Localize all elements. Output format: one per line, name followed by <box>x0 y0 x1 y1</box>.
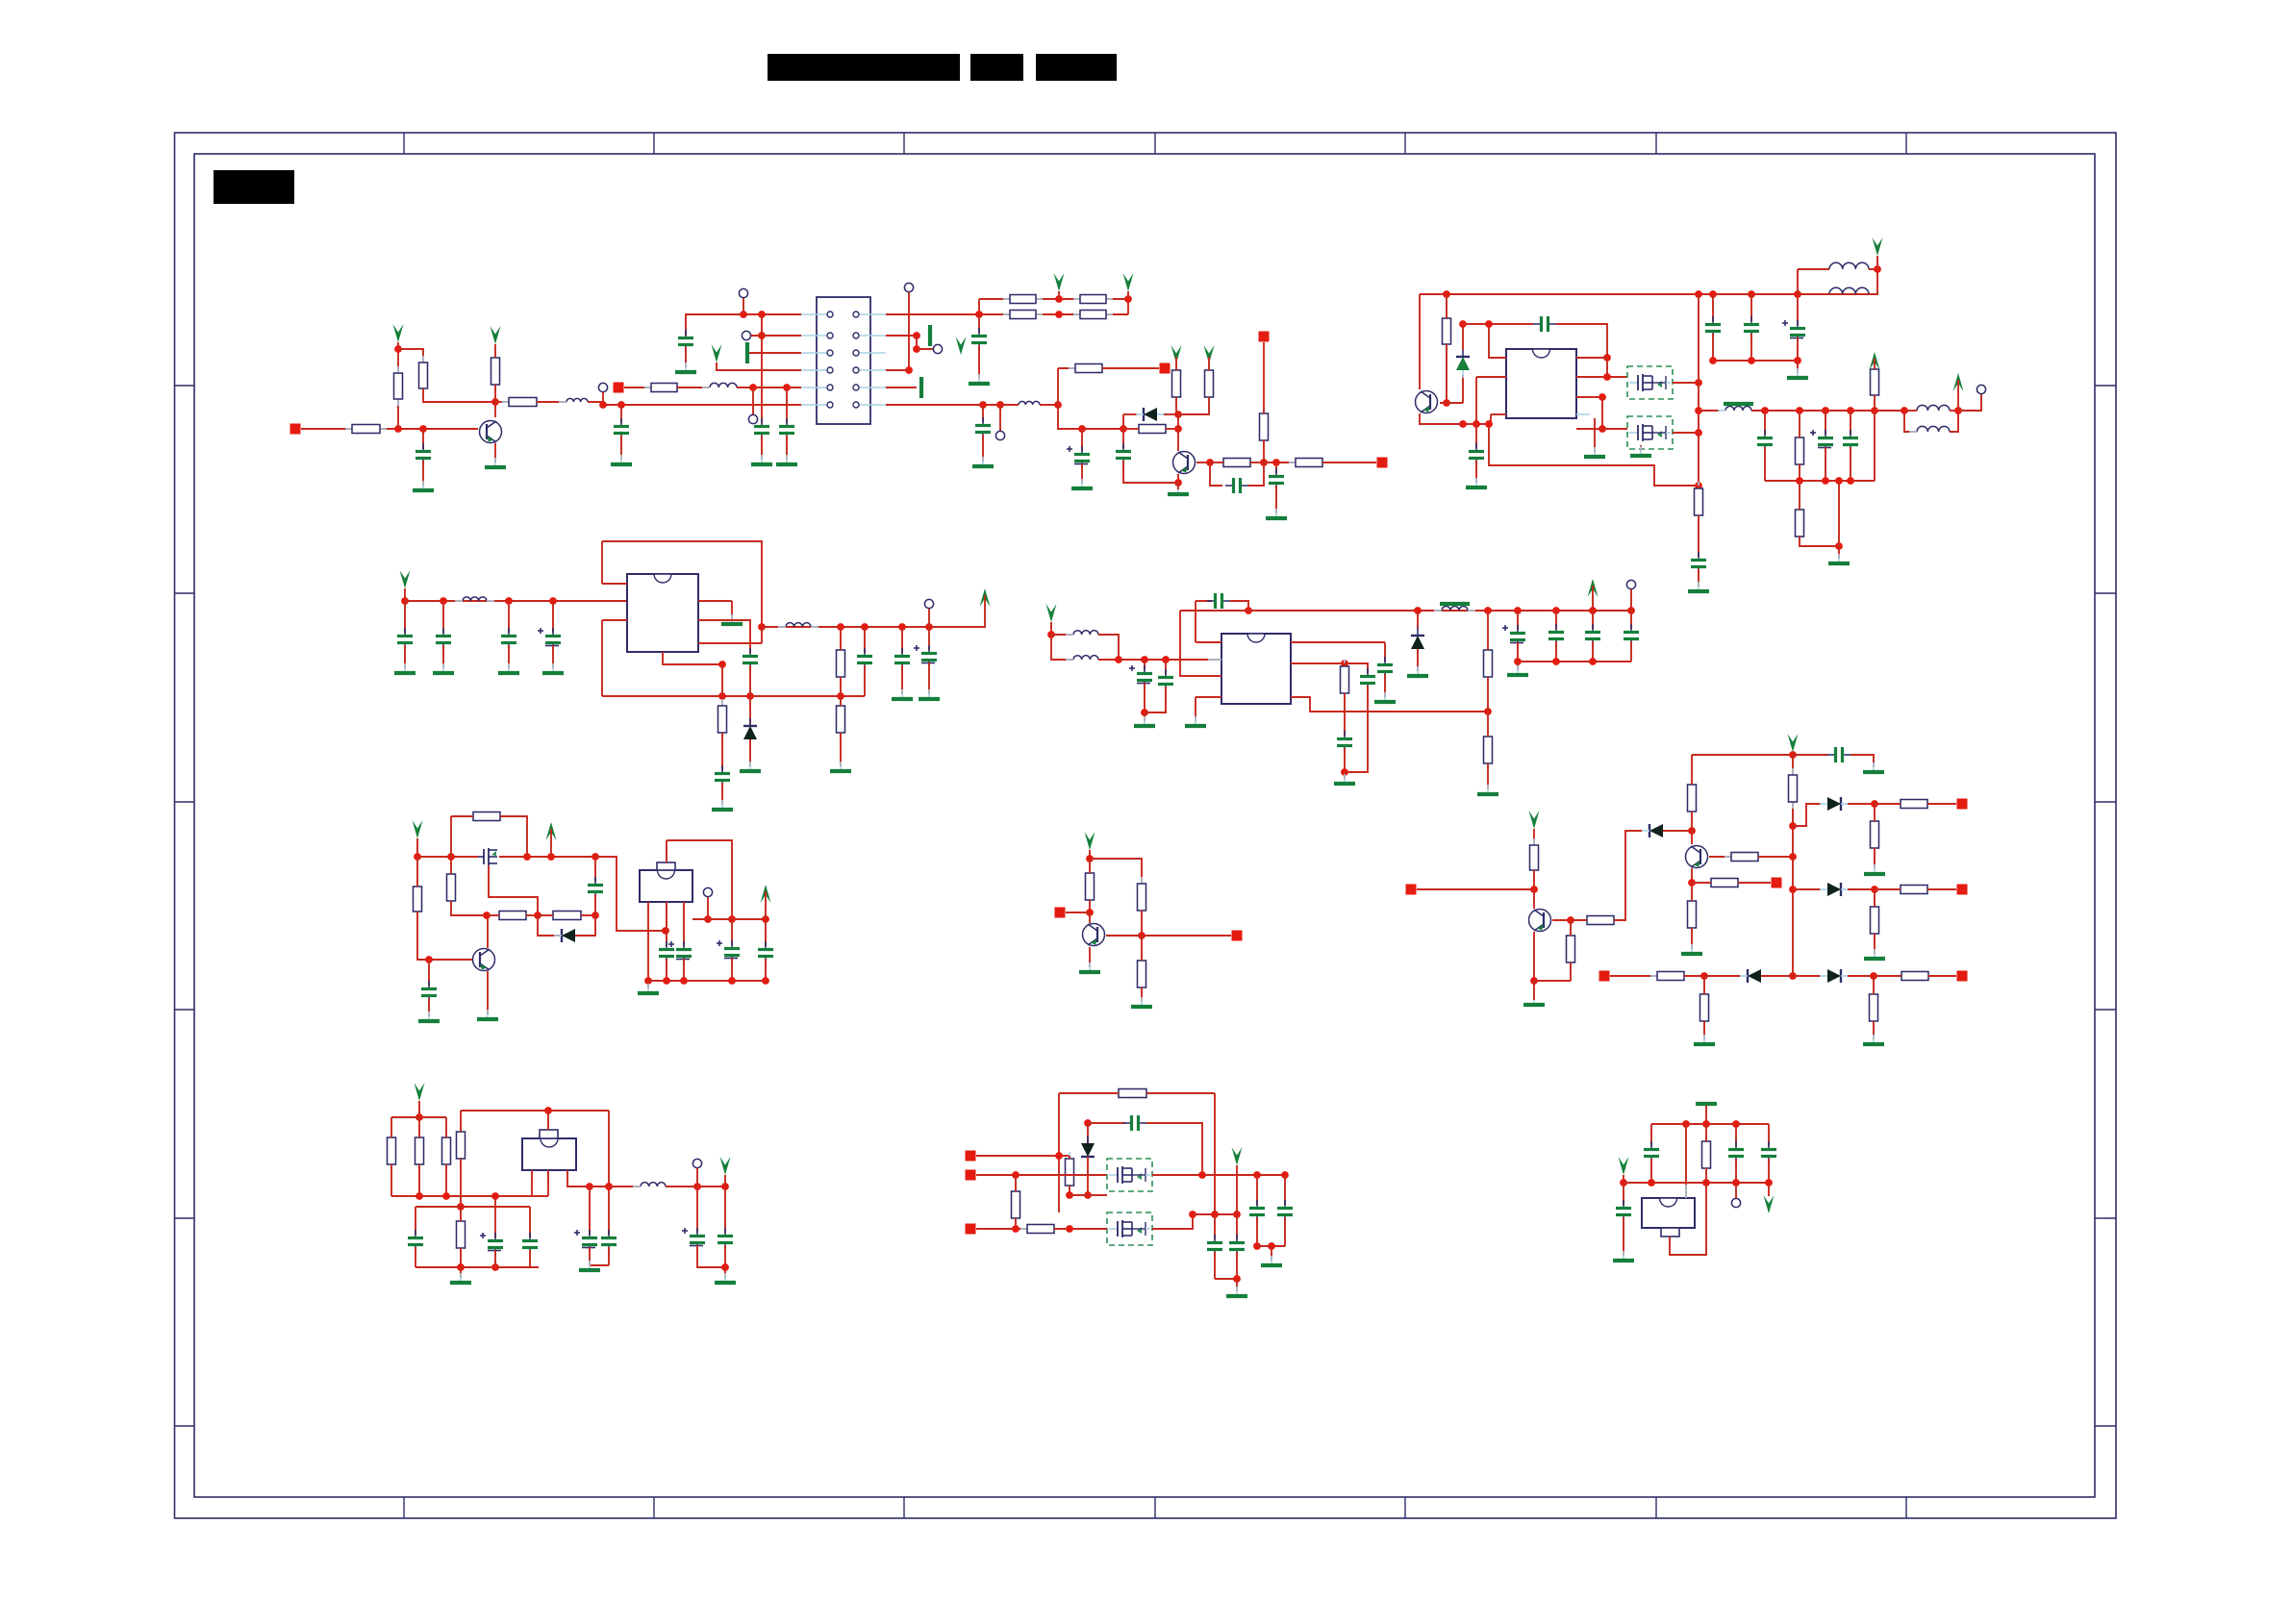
wire <box>1051 635 1073 660</box>
junction <box>1695 482 1702 489</box>
wire <box>1874 848 1876 869</box>
junction <box>1174 411 1182 418</box>
wire <box>404 588 406 601</box>
test point <box>1731 1198 1740 1207</box>
junction <box>1765 1179 1773 1187</box>
junction <box>1599 425 1606 433</box>
wire <box>901 627 903 653</box>
capacitor C33 <box>659 941 674 964</box>
wire <box>1764 447 1766 481</box>
junction <box>491 1263 499 1271</box>
capacitor <box>1624 624 1639 647</box>
junction <box>1847 407 1854 414</box>
junction <box>1688 827 1696 835</box>
ground <box>1131 997 1152 1007</box>
wire <box>460 1267 462 1278</box>
wire <box>1848 975 1874 977</box>
junction <box>1682 1120 1690 1128</box>
wire <box>1698 294 1699 433</box>
wire <box>1533 981 1535 1000</box>
wire <box>594 894 596 915</box>
wire top rail <box>391 1116 446 1118</box>
junction <box>394 345 402 353</box>
wire <box>1750 334 1752 361</box>
wire <box>1533 870 1535 889</box>
wire <box>1798 293 1829 295</box>
wire <box>1793 888 1821 890</box>
junction <box>1648 1179 1655 1187</box>
resistor R46 <box>1871 814 1879 855</box>
junction <box>1473 420 1480 428</box>
off-page connector P6 <box>1055 908 1066 918</box>
wire <box>494 1250 496 1267</box>
capacitor C17 <box>1843 430 1858 453</box>
resistor R3 <box>419 356 428 395</box>
wire <box>928 627 930 650</box>
junction <box>1789 886 1797 893</box>
resistor R45 <box>1894 800 1934 809</box>
wire <box>765 919 767 946</box>
junction <box>1589 658 1597 665</box>
junction <box>1272 459 1280 466</box>
wire <box>1175 397 1177 414</box>
wire <box>1691 883 1693 901</box>
wire <box>1123 413 1138 415</box>
MOSFET Q6 <box>478 848 497 865</box>
junction <box>1233 1211 1241 1218</box>
wire <box>404 601 406 633</box>
wire <box>415 1247 416 1267</box>
junction <box>1174 479 1182 487</box>
junction <box>1748 290 1755 298</box>
IC U4 tab <box>657 862 675 870</box>
wire <box>1712 294 1714 321</box>
wire <box>1570 962 1572 981</box>
wire <box>1738 882 1771 884</box>
wire main column <box>1792 755 1794 976</box>
wire <box>1462 375 1464 403</box>
junction <box>718 661 726 668</box>
wire <box>1950 410 1958 412</box>
wire <box>1606 358 1608 377</box>
wire <box>1761 975 1793 977</box>
junction <box>1530 977 1538 985</box>
junction <box>491 1192 499 1200</box>
capacitor C7 <box>1225 478 1248 493</box>
junction <box>1198 1171 1206 1179</box>
wire <box>1210 462 1222 486</box>
resistor R40 <box>1688 778 1697 818</box>
wire U2 pin <box>602 583 627 585</box>
wire feedback <box>1345 686 1368 772</box>
junction <box>599 401 607 409</box>
wire <box>1145 687 1166 712</box>
junction <box>440 597 447 605</box>
resistor R15 <box>1217 459 1257 467</box>
IC U4 <box>640 870 692 902</box>
junction <box>1603 373 1611 381</box>
wire <box>1257 1245 1285 1247</box>
junction <box>1732 1120 1740 1128</box>
resistor R38 <box>1567 929 1575 969</box>
test point <box>933 344 942 353</box>
ground <box>751 455 772 464</box>
ground <box>1134 716 1155 726</box>
IC U5 <box>522 1138 576 1170</box>
wire <box>1698 433 1699 486</box>
capacitor C29 <box>1360 668 1375 691</box>
wire to regulator <box>595 857 666 931</box>
junction <box>1835 477 1843 485</box>
wire <box>1322 462 1376 463</box>
junction <box>721 1183 729 1190</box>
junction <box>1789 853 1797 861</box>
capacitor C24 <box>1129 665 1152 688</box>
wire Q2 emitter <box>1177 474 1179 483</box>
wire connector row 5 out <box>886 387 917 388</box>
wire rail <box>499 856 595 858</box>
wire <box>901 665 903 694</box>
wire <box>1015 1175 1017 1191</box>
power flag <box>1588 579 1599 597</box>
wire <box>1275 462 1277 473</box>
wire <box>1275 486 1277 513</box>
wire <box>724 1267 726 1278</box>
ground <box>1863 762 1884 772</box>
wire <box>1650 1124 1652 1146</box>
off-page connector P8 <box>1406 885 1417 895</box>
wire <box>1059 1092 1119 1094</box>
ground <box>972 457 994 466</box>
resistor R47 <box>1894 886 1934 894</box>
wire <box>666 840 667 862</box>
junction <box>617 401 625 409</box>
junction <box>1794 290 1801 298</box>
wire <box>1175 357 1177 370</box>
junction <box>1603 354 1611 362</box>
wire Q8 collector <box>1106 935 1142 937</box>
wire <box>526 914 538 916</box>
resistor <box>415 1131 424 1171</box>
wire <box>442 645 444 668</box>
capacitor C55 <box>601 1230 617 1253</box>
junction <box>1012 1225 1020 1233</box>
IC pin stubs <box>532 1116 567 1184</box>
junction <box>1174 425 1182 433</box>
capacitor C40 <box>408 1230 423 1253</box>
junction <box>605 1183 613 1190</box>
wire top rail <box>1692 754 1793 756</box>
wire <box>840 627 842 650</box>
junction <box>523 853 531 861</box>
wire <box>1487 712 1489 737</box>
resistor R22 <box>1695 482 1703 522</box>
off-page connector P10 <box>1957 799 1968 810</box>
off-page connector P7 <box>1232 931 1243 941</box>
resistor R2 <box>394 366 403 406</box>
capacitor <box>1585 624 1600 647</box>
capacitor C23 <box>914 645 937 668</box>
wire <box>1592 586 1594 611</box>
wire <box>1178 397 1209 414</box>
wire <box>647 981 649 988</box>
junction <box>419 425 427 433</box>
wire <box>1799 464 1800 481</box>
junction <box>534 912 541 919</box>
junction <box>1253 1171 1261 1179</box>
junction <box>1281 1171 1289 1179</box>
test point <box>748 414 757 423</box>
wire <box>1533 829 1535 845</box>
ground <box>1694 1035 1715 1044</box>
junction <box>1124 295 1132 303</box>
transistor Q10 <box>1686 846 1708 868</box>
zener diode ZD1 <box>1456 349 1470 378</box>
capacitor C37 <box>1827 747 1850 762</box>
capacitor C2 <box>614 418 629 441</box>
redacted title bar 2 <box>970 54 1023 81</box>
wire <box>683 959 685 981</box>
wire <box>1848 888 1875 890</box>
ground <box>830 762 851 771</box>
junction <box>1901 407 1908 414</box>
capacitor C38 <box>682 1228 705 1251</box>
junction <box>544 1107 552 1114</box>
wire main bus <box>1420 293 1877 295</box>
ground <box>1688 582 1709 591</box>
junction <box>1086 909 1094 916</box>
resistor R1 <box>345 425 387 434</box>
wire <box>1623 1183 1624 1205</box>
ground <box>1334 774 1355 784</box>
power flag VCC <box>491 326 501 344</box>
wire Q9 base <box>1552 919 1571 921</box>
ground <box>1477 785 1498 794</box>
wire U3 pin <box>1291 662 1345 664</box>
wire <box>508 601 510 633</box>
wire <box>761 436 763 460</box>
wire <box>1057 368 1059 405</box>
wire <box>529 1250 531 1267</box>
junction <box>1589 607 1597 614</box>
wire <box>1630 611 1632 629</box>
junction <box>1761 407 1769 414</box>
resistor R14 <box>1205 363 1214 404</box>
wire U5 pin <box>567 1170 590 1187</box>
wire <box>1284 1217 1286 1246</box>
wire <box>529 1207 531 1237</box>
junction <box>837 623 844 631</box>
power flag <box>1232 1147 1243 1165</box>
resistor <box>442 1131 451 1171</box>
wire <box>460 1207 462 1221</box>
wire <box>721 783 723 805</box>
ground <box>1507 665 1528 675</box>
capacitor <box>501 628 516 651</box>
power flag <box>415 1083 425 1101</box>
wire <box>1344 748 1346 772</box>
wire <box>696 1187 698 1233</box>
wire <box>1195 601 1196 642</box>
wire connector row 6 out <box>886 404 1000 406</box>
wire <box>982 435 984 462</box>
wire <box>1958 394 1981 411</box>
wire <box>1177 483 1179 489</box>
power flag <box>1873 237 1883 256</box>
off-page connector P13 <box>1957 971 1968 982</box>
wire <box>601 541 603 584</box>
capacitor C39 <box>718 1228 733 1251</box>
wire <box>575 915 595 936</box>
junction <box>1484 708 1492 715</box>
resistor R12 <box>1132 425 1172 434</box>
capacitor C11 <box>1469 443 1484 466</box>
diode D4 <box>554 929 583 942</box>
inductor L9 <box>455 597 494 601</box>
junction <box>1789 822 1797 830</box>
junction <box>1120 425 1127 433</box>
capacitor C10 <box>1533 316 1556 332</box>
transistor Q8 <box>1083 924 1105 946</box>
junction <box>547 853 555 861</box>
resistor R30 <box>414 880 422 918</box>
wire Q10 collector <box>1691 831 1693 844</box>
junction <box>1700 972 1708 980</box>
ground <box>1681 944 1702 954</box>
wire <box>761 314 763 423</box>
ground <box>1185 716 1206 726</box>
wire <box>620 405 622 423</box>
junction <box>749 384 757 391</box>
wire <box>731 919 733 945</box>
ground <box>919 689 940 699</box>
wire <box>1874 395 1876 411</box>
off-page connector P1 <box>290 424 301 435</box>
wire <box>1210 462 1223 463</box>
junction <box>728 915 736 923</box>
wire <box>445 1164 447 1196</box>
wire U5 pin <box>547 1170 549 1196</box>
wire <box>1475 461 1477 483</box>
capacitor C5 <box>754 418 769 441</box>
wire <box>1663 830 1692 832</box>
junction <box>1054 401 1062 409</box>
wire <box>537 401 566 403</box>
junction <box>1138 932 1145 939</box>
wire <box>417 912 472 960</box>
resistor R24 <box>837 643 845 684</box>
resistor R10 <box>1073 311 1113 319</box>
wire <box>1462 324 1464 350</box>
junction <box>762 977 769 985</box>
junction <box>1709 290 1717 298</box>
wire <box>749 696 751 724</box>
wire <box>1215 1278 1237 1280</box>
resistor R9 <box>1003 311 1043 319</box>
junction <box>592 853 599 861</box>
wire <box>1838 546 1840 559</box>
capacitor C22 <box>894 648 910 671</box>
wire <box>538 914 553 916</box>
junction <box>1084 1191 1092 1199</box>
wire <box>1768 1183 1770 1196</box>
wire <box>1088 1122 1125 1124</box>
power flag <box>761 885 771 903</box>
wire <box>1571 919 1587 921</box>
test point <box>742 331 750 339</box>
junction <box>447 853 455 861</box>
wire <box>685 347 687 367</box>
wire <box>1517 611 1519 630</box>
wire <box>1050 622 1052 635</box>
IC pin stubs <box>1208 642 1304 697</box>
wire <box>1623 1175 1624 1183</box>
wire <box>1195 697 1196 721</box>
wire <box>1164 413 1178 415</box>
wire <box>1384 674 1386 697</box>
wire <box>1263 342 1265 413</box>
off-page connector P14 <box>966 1151 976 1162</box>
junction <box>1055 1152 1063 1160</box>
ground <box>776 455 797 464</box>
wire <box>1793 754 1828 756</box>
wire <box>1555 611 1557 629</box>
transistor Q9 <box>1529 910 1551 932</box>
off-page connector P2 <box>614 383 624 393</box>
power flag <box>1764 1195 1775 1213</box>
wire <box>1263 440 1265 462</box>
wire <box>1284 1175 1286 1205</box>
resistor R53 <box>457 1125 466 1165</box>
capacitor <box>436 628 451 651</box>
wire <box>397 342 399 349</box>
capacitor C26 <box>1207 593 1230 609</box>
resistor R18 <box>1443 312 1451 351</box>
test point <box>739 288 747 297</box>
ground <box>1168 485 1189 494</box>
junction <box>663 977 670 985</box>
ground <box>450 1273 471 1283</box>
capacitor C4 <box>678 330 693 353</box>
junction <box>1796 407 1803 414</box>
wire loop <box>461 1110 609 1112</box>
wire <box>450 816 452 857</box>
wire <box>418 1164 420 1196</box>
wire U3 pin <box>1180 611 1221 676</box>
ground <box>919 377 923 398</box>
wire gate row <box>1070 1194 1107 1196</box>
junction <box>905 366 913 374</box>
resistor <box>388 1131 396 1171</box>
ground <box>892 689 913 699</box>
diode D10 <box>1081 1136 1095 1164</box>
wire <box>1928 975 1956 977</box>
wire <box>928 609 930 627</box>
wire <box>1556 324 1607 358</box>
wire row C <box>976 1228 1027 1230</box>
junction <box>1567 916 1574 924</box>
wire Q5 source <box>1640 445 1642 451</box>
junction <box>721 1263 729 1271</box>
wire <box>1123 428 1139 430</box>
resistor R4 <box>491 351 500 391</box>
wire <box>1196 600 1212 602</box>
off-page connector P4 <box>1377 458 1388 468</box>
capacitor C50 <box>1761 1141 1776 1164</box>
resistor R20 <box>1796 503 1804 543</box>
junction <box>1341 768 1348 776</box>
wire <box>707 897 709 919</box>
